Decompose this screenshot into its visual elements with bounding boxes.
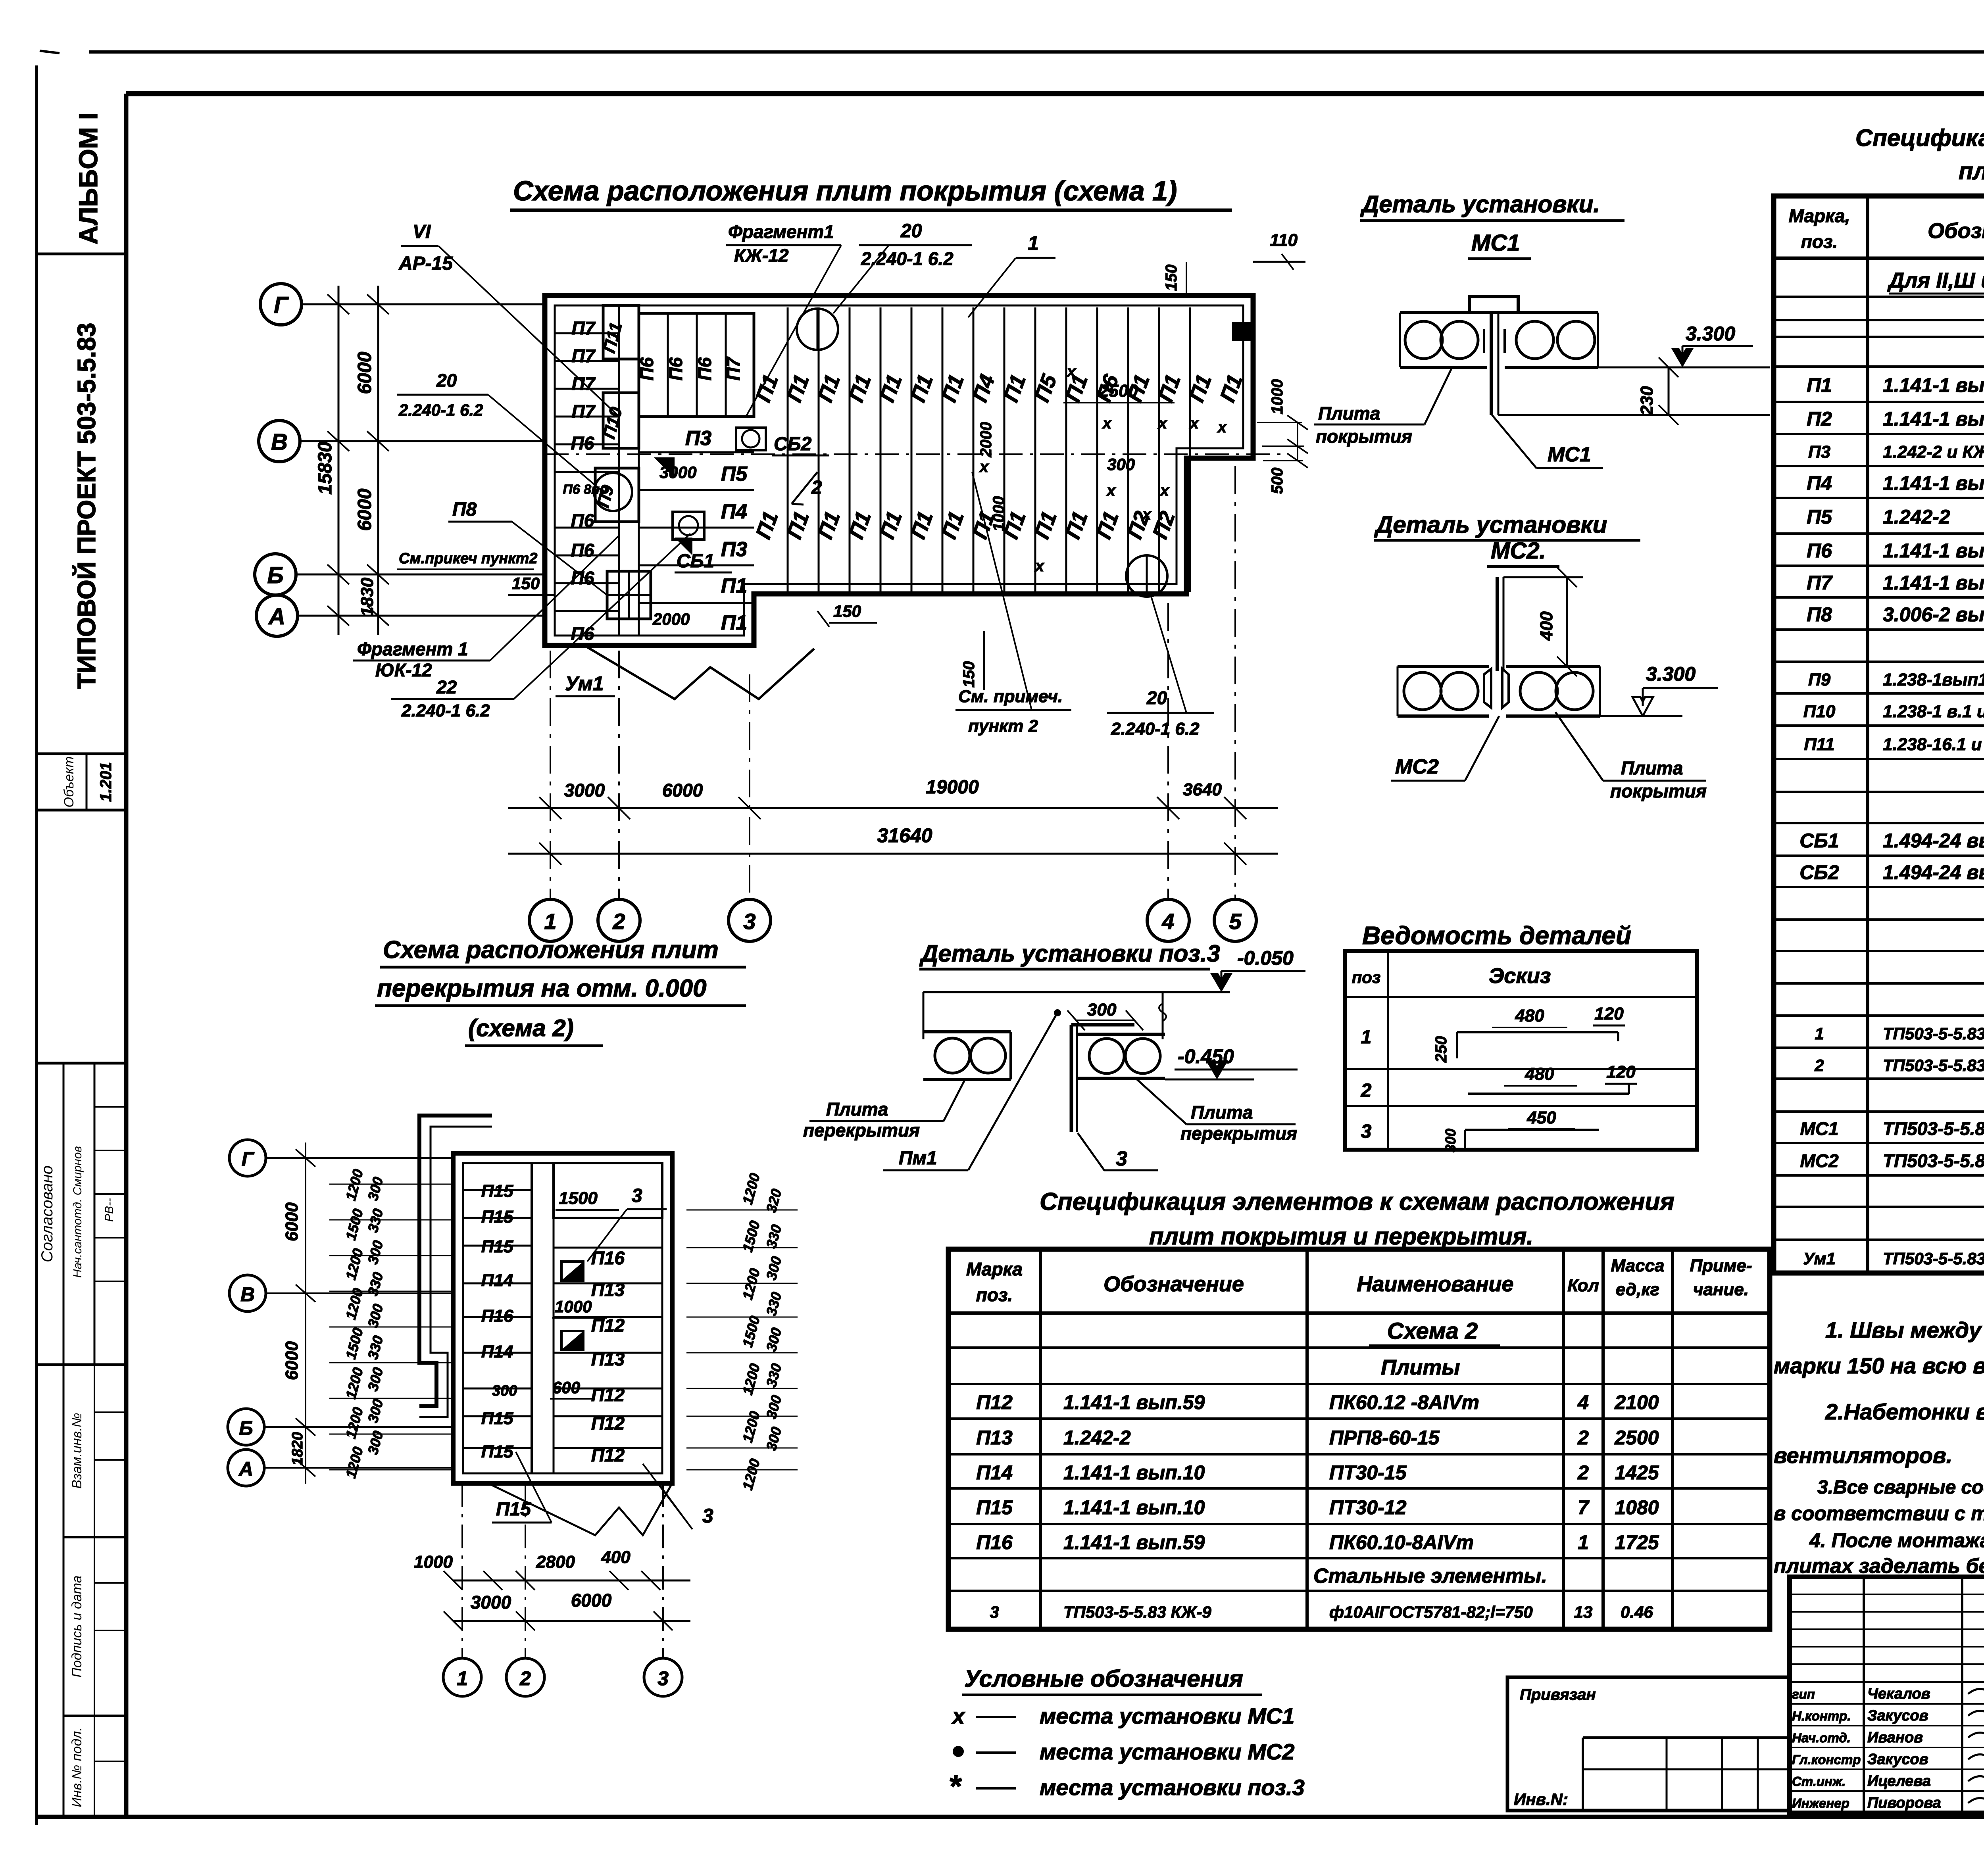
legend dot [953, 1746, 964, 1757]
svg-text:Приме-: Приме- [1690, 1256, 1752, 1275]
svg-text:600: 600 [552, 1378, 580, 1397]
svg-text:Г: Г [274, 292, 289, 318]
svg-text:-0.050: -0.050 [1237, 947, 1294, 969]
bottom grid bubbles 1-5 [529, 899, 571, 941]
svg-text:4: 4 [1161, 909, 1174, 934]
hollow-core slab section [923, 1030, 1011, 1033]
svg-text:x: x [951, 1703, 966, 1728]
schema 2 right dim ticks [686, 1210, 798, 1211]
svg-text:Схема 2: Схема 2 [1387, 1318, 1478, 1344]
svg-text:Пиворова: Пиворова [1867, 1795, 1941, 1811]
SB2 stakan box [736, 428, 766, 450]
svg-text:1.238-1 в.1 и КЖИ-КВ28: 1.238-1 в.1 и КЖИ-КВ28 [1883, 702, 1984, 721]
svg-text:1: 1 [457, 1667, 468, 1690]
hollow-core slab section [1505, 311, 1598, 314]
svg-text:П15: П15 [481, 1181, 513, 1201]
svg-text:П14: П14 [481, 1271, 513, 1290]
svg-text:Закусов: Закусов [1867, 1707, 1928, 1724]
svg-text:П2: П2 [1807, 408, 1832, 430]
svg-text:марки 150 на всю высоту шва.: марки 150 на всю высоту шва. [1774, 1353, 1984, 1378]
svg-text:Наименование: Наименование [1357, 1272, 1513, 1296]
schema 2 bottom dims [453, 1580, 690, 1582]
svg-text:Согласовано: Согласовано [38, 1166, 56, 1262]
svg-text:Деталь установки поз.3: Деталь установки поз.3 [919, 940, 1220, 967]
svg-text:П5: П5 [721, 463, 748, 486]
hollow-core slab section [1400, 311, 1487, 314]
svg-text:Г: Г [242, 1148, 255, 1170]
svg-text:Ст.инж.: Ст.инж. [1792, 1774, 1846, 1789]
svg-text:ТИПОВОЙ ПРОЕКТ 503-5.5.83: ТИПОВОЙ ПРОЕКТ 503-5.5.83 [72, 323, 101, 689]
corner hatch square P5 row [654, 457, 675, 478]
svg-text:П13: П13 [591, 1279, 625, 1300]
svg-text:3.006-2 вып.П-2: 3.006-2 вып.П-2 [1883, 603, 1984, 626]
svg-text:Для II,Ш и IV снеговых районов: Для II,Ш и IV снеговых районов. [1887, 269, 1984, 292]
svg-text:П12: П12 [591, 1413, 625, 1434]
svg-text:1820: 1820 [289, 1432, 306, 1466]
svg-text:Гл.констр: Гл.констр [1792, 1752, 1861, 1767]
vent black squares [561, 1262, 583, 1281]
svg-text:П6: П6 [694, 357, 715, 380]
MC2 vertical plate [1496, 577, 1499, 671]
svg-text:1: 1 [1578, 1531, 1589, 1553]
schema 2 left tick lines [329, 1184, 453, 1185]
svg-text:П7: П7 [723, 356, 744, 380]
svg-text:П7: П7 [572, 346, 596, 366]
svg-text:Б: Б [267, 563, 283, 588]
svg-text:А: А [238, 1458, 253, 1480]
svg-text:1. Швы между плитами заделать: 1. Швы между плитами заделать цементным … [1825, 1317, 1984, 1342]
detail circle left [594, 473, 632, 511]
svg-text:П16: П16 [481, 1306, 513, 1326]
page outer top line [89, 50, 1984, 54]
svg-text:3: 3 [743, 909, 756, 934]
svg-text:ТП503-5-5.83 КЖ-12: ТП503-5-5.83 КЖ-12 [1883, 1249, 1984, 1268]
svg-text:2: 2 [811, 477, 822, 498]
svg-text:1.141-1 вып.59: 1.141-1 вып.59 [1883, 374, 1984, 396]
svg-text:Плита: Плита [826, 1099, 888, 1119]
grid verticals down to bubbles [550, 651, 551, 899]
svg-text:МС2.: МС2. [1491, 538, 1546, 564]
svg-text:П7: П7 [1807, 572, 1833, 594]
svg-text:Марка,: Марка, [1789, 205, 1850, 226]
drawing frame (inner) [126, 91, 1984, 96]
svg-text:3: 3 [632, 1185, 642, 1206]
svg-text:x: x [1159, 482, 1170, 499]
svg-text:5: 5 [1229, 909, 1242, 934]
svg-text:13: 13 [1574, 1603, 1593, 1621]
svg-text:П7: П7 [572, 318, 596, 338]
svg-text:3.300: 3.300 [1646, 663, 1696, 685]
svg-text:2: 2 [1361, 1080, 1372, 1101]
svg-text:1.141-1 вып.10: 1.141-1 вып.10 [1883, 572, 1984, 594]
svg-text:П10: П10 [1803, 702, 1836, 721]
svg-text:П3: П3 [1808, 442, 1830, 462]
svg-text:СБ2: СБ2 [774, 434, 812, 455]
svg-text:1: 1 [1028, 232, 1039, 254]
podpis i data cell [63, 1715, 126, 1717]
schema 2 wall outline L-shape top-left [419, 1116, 492, 1406]
svg-text:2: 2 [1814, 1056, 1824, 1075]
svg-text:22: 22 [436, 677, 457, 697]
schema 2 left dims [305, 1142, 306, 1484]
svg-text:2.240-1 6.2: 2.240-1 6.2 [861, 248, 954, 269]
schema 2 top right window opening [554, 1163, 662, 1218]
svg-text:3640: 3640 [1183, 780, 1222, 799]
svg-text:2000: 2000 [652, 610, 690, 628]
svg-text:6000: 6000 [662, 780, 703, 801]
svg-text:480: 480 [1525, 1064, 1554, 1084]
svg-text:300: 300 [1442, 1129, 1459, 1152]
svg-text:Масса: Масса [1611, 1256, 1664, 1275]
svg-text:31640: 31640 [877, 824, 932, 847]
svg-text:Плита: Плита [1318, 403, 1380, 424]
svg-text:Н.контр.: Н.контр. [1792, 1709, 1851, 1723]
dim chain row 1 [508, 807, 1278, 809]
svg-text:1.238-1вып1 и КЖИ-КВ16: 1.238-1вып1 и КЖИ-КВ16 [1883, 670, 1984, 689]
signatures squiggles [1968, 1689, 1984, 1698]
svg-text:РВ--: РВ-- [103, 1198, 116, 1222]
svg-text:3: 3 [1116, 1147, 1127, 1170]
svg-text:ЮК-12: ЮК-12 [375, 660, 432, 680]
svg-text:6000: 6000 [354, 488, 375, 531]
svg-text:6000: 6000 [282, 1341, 302, 1380]
svg-text:x: x [979, 458, 989, 476]
svg-text:П15: П15 [481, 1409, 513, 1428]
svg-text:Ведомость деталей: Ведомость деталей [1362, 921, 1631, 950]
svg-text:7: 7 [1578, 1496, 1590, 1519]
title block outer [1790, 1577, 1984, 1813]
plan 1 outline outer [545, 296, 1253, 645]
svg-text:П6: П6 [636, 357, 657, 380]
svg-text:Кол: Кол [1567, 1276, 1599, 1295]
svg-text:А: А [268, 604, 285, 630]
top small block with vertical strips P6 P6 P6 P7 [639, 313, 754, 417]
svg-text:СБ1: СБ1 [1799, 830, 1839, 852]
svg-text:Ум1: Ум1 [565, 672, 604, 695]
svg-text:СБ2: СБ2 [1799, 861, 1839, 883]
svg-text:1000: 1000 [1269, 379, 1286, 415]
svg-text:110: 110 [1270, 230, 1298, 250]
svg-text:Спецификация элементов к схема: Спецификация элементов к схемам располож… [1855, 125, 1984, 151]
svg-text:x: x [1102, 415, 1112, 432]
svg-text:П6: П6 [665, 357, 686, 380]
svg-text:2100: 2100 [1614, 1391, 1659, 1413]
plan 1: vertical plate strips right section [787, 307, 789, 592]
svg-text:2: 2 [612, 909, 625, 934]
svg-text:1425: 1425 [1615, 1461, 1659, 1484]
svg-text:6000: 6000 [282, 1202, 302, 1241]
svg-text:6000: 6000 [354, 351, 375, 394]
svg-text:1: 1 [544, 909, 556, 934]
svg-text:x: x [1217, 419, 1227, 436]
pos3 top line (floor level) [923, 991, 1230, 993]
title block small rows top-left [1790, 1594, 1984, 1595]
svg-text:480: 480 [1515, 1006, 1544, 1025]
svg-text:Фрагмент 1: Фрагмент 1 [357, 639, 468, 659]
svg-text:4. После монтажа сантехническо: 4. После монтажа сантехнического оборудо… [1809, 1529, 1984, 1551]
svg-text:П3: П3 [685, 427, 711, 450]
svg-text:3.300: 3.300 [1686, 323, 1735, 345]
svg-text:АЛЬБОМ I: АЛЬБОМ I [73, 113, 103, 245]
svg-text:перекрытия: перекрытия [1180, 1123, 1297, 1144]
svg-text:1.141-1 вып.59: 1.141-1 вып.59 [1883, 472, 1984, 494]
svg-text:x: x [1034, 557, 1045, 575]
svg-text:150: 150 [960, 661, 978, 688]
left stamp strip dividers [37, 253, 126, 255]
svg-text:2.240-1 6.2: 2.240-1 6.2 [1111, 719, 1200, 739]
svg-text:1: 1 [1361, 1027, 1372, 1048]
svg-text:2.240-1 6.2: 2.240-1 6.2 [398, 401, 483, 419]
svg-text:П1: П1 [1807, 374, 1832, 396]
svg-text:Инв.N:: Инв.N: [1514, 1790, 1568, 1809]
title block labeled rows [1790, 1703, 1984, 1705]
svg-text:Иванов: Иванов [1867, 1729, 1923, 1746]
svg-text:места установки поз.3: места установки поз.3 [1040, 1775, 1305, 1800]
svg-text:пункт 2: пункт 2 [968, 716, 1038, 736]
svg-text:2500: 2500 [1614, 1427, 1659, 1449]
svg-text:1.201: 1.201 [97, 762, 115, 802]
svg-text:Инженер: Инженер [1792, 1796, 1849, 1811]
svg-text:ТП503-5-5.83 КЖ-9: ТП503-5-5.83 КЖ-9 [1063, 1603, 1211, 1621]
schema 2 grid bubbles [229, 1140, 266, 1176]
svg-text:Взам.инв.№: Взам.инв.№ [69, 1413, 85, 1488]
svg-text:1500: 1500 [559, 1189, 598, 1208]
svg-text:Условные обозначения: Условные обозначения [964, 1665, 1243, 1692]
svg-text:Объект: Объект [62, 756, 77, 807]
svg-text:П13: П13 [976, 1427, 1013, 1449]
svg-text:Нач.отд.: Нач.отд. [1792, 1730, 1851, 1745]
svg-text:3: 3 [1361, 1121, 1372, 1142]
svg-text:П8: П8 [452, 499, 477, 520]
schema 2 bottom zigzag [488, 1483, 672, 1535]
svg-text:Закусов: Закусов [1867, 1751, 1928, 1768]
svg-text:Инв.№ подл.: Инв.№ подл. [69, 1727, 85, 1807]
svg-text:Ум1: Ум1 [1803, 1249, 1836, 1268]
svg-text:*: * [948, 1768, 962, 1804]
svg-text:места установки МС1: места установки МС1 [1040, 1703, 1294, 1728]
svg-text:0.46: 0.46 [1621, 1603, 1653, 1621]
svg-text:П14: П14 [481, 1342, 513, 1361]
svg-text:120: 120 [1606, 1062, 1636, 1082]
schema 2 plan inner face [463, 1163, 662, 1473]
svg-text:МС2: МС2 [1395, 755, 1439, 778]
svg-text:ПК60.12 -8АIVт: ПК60.12 -8АIVт [1329, 1391, 1479, 1413]
MC1 vertical pin [1490, 313, 1493, 415]
detail circle bottom right [1126, 555, 1167, 597]
schema 2 plan outer rect [453, 1153, 672, 1483]
svg-text:поз.: поз. [1801, 231, 1838, 252]
svg-text:Пм1: Пм1 [899, 1148, 937, 1169]
svg-text:П15: П15 [976, 1496, 1013, 1519]
svg-text:1.494-24 вып.1: 1.494-24 вып.1 [1883, 830, 1984, 852]
svg-text:2800: 2800 [536, 1552, 575, 1572]
svg-text:x: x [1106, 482, 1116, 499]
svg-text:покрытия: покрытия [1610, 781, 1707, 801]
svg-text:См.прикеч пункт2: См.прикеч пункт2 [399, 550, 537, 567]
svg-text:450: 450 [1526, 1108, 1556, 1127]
svg-text:20: 20 [436, 370, 457, 391]
dim 400 [1566, 577, 1568, 666]
svg-text:ТП503-5-5.83 КЖ-9: ТП503-5-5.83 КЖ-9 [1883, 1024, 1984, 1043]
svg-text:гип: гип [1792, 1687, 1815, 1701]
svg-text:П14: П14 [976, 1461, 1013, 1484]
svg-text:П4: П4 [1807, 472, 1832, 494]
svg-text:П1: П1 [721, 611, 747, 634]
svg-text:400: 400 [1537, 611, 1556, 641]
svg-text:x: x [1157, 415, 1168, 432]
svg-text:ТП503-5-5.83 КЖИ-МС1: ТП503-5-5.83 КЖИ-МС1 [1883, 1118, 1984, 1139]
svg-text:П6: П6 [571, 433, 594, 453]
hollow-core slab section [1398, 665, 1489, 668]
svg-text:перекрытия: перекрытия [803, 1120, 920, 1141]
svg-text:20: 20 [900, 221, 922, 242]
svg-text:Фрагмент1: Фрагмент1 [728, 221, 834, 242]
svg-text:в соответствии с требованиями: в соответствии с требованиями типовых се… [1774, 1502, 1984, 1525]
svg-text:П5: П5 [1807, 506, 1832, 528]
svg-text:1830: 1830 [358, 578, 377, 616]
svg-text:3: 3 [990, 1603, 999, 1621]
svg-text:В: В [271, 429, 288, 455]
svg-text:15830: 15830 [315, 442, 336, 495]
svg-text:П6: П6 [571, 510, 594, 531]
svg-text:поз.: поз. [976, 1285, 1013, 1305]
svg-text:вентиляторов.: вентиляторов. [1774, 1443, 1952, 1468]
svg-text:1.238-16.1 и КЖИ-КВ22: 1.238-16.1 и КЖИ-КВ22 [1883, 735, 1984, 754]
left block: P7 column rows [618, 305, 620, 636]
middle-left sub block rows [639, 416, 754, 418]
soglasovano block [37, 1062, 126, 1065]
svg-text:П7: П7 [572, 401, 596, 422]
svg-text:2.240-1 6.2: 2.240-1 6.2 [401, 701, 490, 720]
svg-text:места установки МС2: места установки МС2 [1040, 1739, 1294, 1764]
svg-text:3.Все сварные соединения выпол: 3.Все сварные соединения выполнить элект… [1817, 1477, 1984, 1498]
svg-text:Чекалов: Чекалов [1867, 1686, 1930, 1702]
svg-text:1.141-1 вып.59: 1.141-1 вып.59 [1883, 408, 1984, 430]
svg-text:2: 2 [519, 1667, 531, 1690]
svg-text:2: 2 [1577, 1461, 1589, 1484]
svg-text:150: 150 [1163, 265, 1180, 291]
svg-text:Эскиз: Эскиз [1489, 964, 1551, 988]
svg-text:П12: П12 [591, 1384, 625, 1405]
svg-text:Схема расположения плит: Схема расположения плит [383, 936, 719, 964]
svg-text:1.141-1 вып.59: 1.141-1 вып.59 [1063, 1391, 1205, 1413]
page outer margin line left [35, 65, 38, 1825]
svg-text:400: 400 [601, 1548, 631, 1567]
svg-text:19000: 19000 [926, 777, 979, 798]
svg-text:1.494-24 вып.1: 1.494-24 вып.1 [1883, 861, 1984, 883]
svg-text:П11: П11 [1804, 735, 1834, 754]
svg-text:ПК60.10-8АIVт: ПК60.10-8АIVт [1329, 1531, 1474, 1553]
svg-text:МС1: МС1 [1548, 443, 1591, 466]
svg-text:250: 250 [1432, 1036, 1450, 1063]
svg-text:П15: П15 [481, 1207, 513, 1227]
svg-text:1.141-1 вып.10: 1.141-1 вып.10 [1883, 540, 1984, 562]
svg-text:П8: П8 [1807, 603, 1832, 626]
svg-text:(схема 2): (схема 2) [468, 1015, 574, 1041]
svg-text:2.Набетонки выполнить одноврем: 2.Набетонки выполнить одновременно с уст… [1825, 1399, 1984, 1424]
svg-text:Привязан: Привязан [1520, 1686, 1596, 1703]
svg-text:x: x [1189, 415, 1200, 432]
MC2 slab bottom level line [1600, 715, 1682, 717]
svg-text:1: 1 [1815, 1024, 1824, 1043]
svg-text:Плиты: Плиты [1381, 1356, 1460, 1379]
svg-text:x: x [1142, 506, 1152, 523]
svg-text:6000: 6000 [571, 1590, 612, 1611]
svg-text:500: 500 [1269, 468, 1286, 494]
svg-text:20: 20 [1146, 687, 1167, 708]
svg-text:ед,кг: ед,кг [1616, 1280, 1659, 1299]
svg-text:Схема расположения плит покрыт: Схема расположения плит покрытия (схема … [513, 175, 1177, 206]
svg-text:перекрытия на отм. 0.000: перекрытия на отм. 0.000 [377, 975, 707, 1002]
svg-text:Деталь установки: Деталь установки [1374, 511, 1607, 538]
svg-text:П12: П12 [976, 1391, 1013, 1413]
svg-text:П4: П4 [721, 500, 747, 523]
svg-text:300: 300 [492, 1383, 517, 1399]
zigzag monolith Um1 [588, 647, 814, 699]
svg-text:2000: 2000 [977, 422, 995, 458]
svg-text:МС1: МС1 [1471, 230, 1520, 256]
svg-text:покрытия: покрытия [1316, 426, 1412, 447]
svg-text:1.242-2: 1.242-2 [1883, 506, 1950, 528]
left dimension chains [338, 286, 340, 635]
svg-text:П15: П15 [481, 1237, 513, 1256]
grid axis bubbles left (G,V,B,A) [260, 284, 302, 325]
svg-text:П16: П16 [976, 1531, 1013, 1553]
schema 2 rows right column [554, 1247, 662, 1249]
svg-text:1.141-1 вып.10: 1.141-1 вып.10 [1063, 1461, 1205, 1484]
svg-text:МС2: МС2 [1800, 1150, 1839, 1171]
title block signature columns [1863, 1577, 1865, 1813]
svg-text:ТП503-5-5.83 КЖ-9: ТП503-5-5.83 КЖ-9 [1883, 1056, 1984, 1075]
svg-text:ПТ30-12: ПТ30-12 [1329, 1496, 1407, 1519]
MC1 joint wedges [1483, 329, 1485, 353]
vedomost table [1345, 951, 1697, 1150]
svg-text:Плита: Плита [1191, 1102, 1253, 1123]
svg-text:ТП503-5-5.83 КЖИ-МС2: ТП503-5-5.83 КЖИ-МС2 [1883, 1150, 1984, 1171]
SB1 stakan box [673, 512, 704, 540]
svg-text:П6: П6 [1807, 540, 1832, 562]
svg-text:1.242-2: 1.242-2 [1063, 1427, 1131, 1449]
dark plate mark top right [1232, 322, 1251, 341]
svg-text:Стальные элементы.: Стальные элементы. [1313, 1565, 1547, 1588]
svg-text:См. примеч.: См. примеч. [958, 687, 1063, 706]
svg-text:3: 3 [702, 1505, 713, 1527]
schema 2 rows left column [463, 1189, 532, 1191]
svg-text:1000: 1000 [555, 1297, 592, 1316]
table2 grid [948, 1249, 1770, 1629]
svg-text:ПРП8-60-15: ПРП8-60-15 [1329, 1427, 1440, 1449]
svg-text:Ицелева: Ицелева [1867, 1773, 1931, 1790]
svg-text:П15: П15 [481, 1442, 513, 1461]
privyazan block [1507, 1677, 1790, 1811]
svg-text:П3: П3 [721, 538, 747, 561]
svg-text:чание.: чание. [1693, 1280, 1749, 1299]
svg-text:1.242-2 и КЖИ-ПРП6-60-15: 1.242-2 и КЖИ-ПРП6-60-15 [1883, 442, 1984, 462]
svg-text:плит покрытия и перекрытия.: плит покрытия и перекрытия. [1959, 158, 1984, 184]
svg-text:Нач.сантотд. Смирнов: Нач.сантотд. Смирнов [71, 1146, 84, 1278]
svg-text:1.141-1 вып.59: 1.141-1 вып.59 [1063, 1531, 1205, 1553]
svg-text:230: 230 [1637, 386, 1657, 416]
svg-text:П12: П12 [591, 1445, 625, 1465]
svg-text:x: x [1066, 363, 1077, 380]
svg-text:Подпись и дата: Подпись и дата [69, 1575, 85, 1677]
svg-text:300: 300 [1107, 455, 1135, 474]
svg-text:плит покрытия и перекрытия.: плит покрытия и перекрытия. [1149, 1223, 1533, 1250]
svg-text:В: В [240, 1283, 255, 1306]
svg-text:Деталь установки.: Деталь установки. [1360, 191, 1600, 217]
svg-text:АР-15: АР-15 [398, 253, 453, 274]
svg-text:ф10АIГОСТ5781-82;l=750: ф10АIГОСТ5781-82;l=750 [1329, 1603, 1533, 1621]
